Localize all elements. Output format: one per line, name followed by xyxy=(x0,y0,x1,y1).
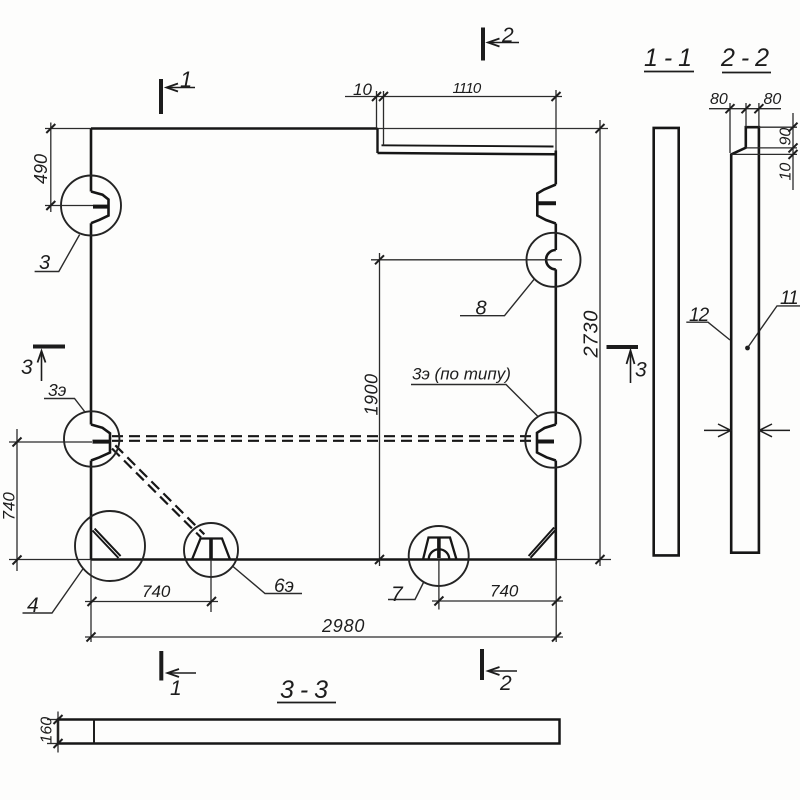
svg-text:2980: 2980 xyxy=(321,616,365,636)
dim 160 line xyxy=(57,712,59,753)
leader 3 xyxy=(35,235,80,272)
notch 8 half circle xyxy=(546,250,556,269)
dim 490 line xyxy=(50,123,52,213)
circle detail 3э (по типу) xyxy=(525,412,580,467)
arch of detail 7 xyxy=(429,549,450,559)
key mark left upper xyxy=(93,205,109,209)
dim 90-10 line xyxy=(792,113,794,190)
svg-text:2 - 2: 2 - 2 xyxy=(720,44,769,72)
leader 4 xyxy=(23,569,84,614)
ticks 490 xyxy=(46,124,55,210)
width arrows at 2-2 xyxy=(704,424,790,437)
key mark left lower xyxy=(93,440,110,444)
ticks 740 left xyxy=(13,438,22,565)
svg-text:1: 1 xyxy=(170,677,182,700)
svg-text:3: 3 xyxy=(21,356,33,379)
chamfer bottom-right corner xyxy=(529,528,556,558)
wire right edge upper xyxy=(554,151,557,185)
svg-text:740: 740 xyxy=(142,582,171,601)
rebate step vertical at x=377.5 xyxy=(376,129,378,154)
ext 160 top xyxy=(47,719,58,721)
LEADER LABELS xyxy=(23,235,800,613)
ext 7 center xyxy=(438,560,440,610)
section mark 1 bottom xyxy=(159,651,163,681)
ticks 10 and 1110 xyxy=(372,92,561,101)
ext of rebate corner xyxy=(376,91,378,129)
leader 7 xyxy=(388,583,424,600)
dim texts xyxy=(0,80,603,636)
svg-text:6э: 6э xyxy=(274,576,294,597)
ticks 2730 xyxy=(596,124,605,564)
svg-text:11: 11 xyxy=(780,288,798,309)
key notch left upper (detail 3) xyxy=(91,192,109,224)
dim 490 ext top xyxy=(45,128,91,130)
wire top edge thin extension to 2730 dim xyxy=(378,128,609,130)
DETAIL CIRCLES xyxy=(61,176,581,587)
svg-text:1900: 1900 xyxy=(362,373,382,415)
ticks 740 bottom-left xyxy=(88,597,217,606)
dashed pair horizontal (hidden edge) xyxy=(112,436,537,441)
section 1-1 bar xyxy=(654,128,679,556)
rebate upper line xyxy=(382,145,554,146)
ticks 740 bottom-right xyxy=(434,597,561,606)
wire right edge above notch 8 xyxy=(554,224,557,251)
svg-text:4: 4 xyxy=(27,594,39,617)
ext 2-2 mid xyxy=(745,103,747,127)
SECTION MARKS xyxy=(33,28,638,681)
dim 1900 line xyxy=(379,253,381,566)
key notch right upper (shear key) xyxy=(537,185,556,224)
svg-text:80: 80 xyxy=(710,91,728,108)
divider of 3-3 bar xyxy=(93,720,95,744)
mark 7 xyxy=(437,539,441,559)
svg-text:1: 1 xyxy=(180,67,192,92)
svg-text:2: 2 xyxy=(499,672,512,695)
leader 11 with dot xyxy=(748,306,800,348)
section 2-2 bar with rebate xyxy=(731,127,759,553)
ticks 90-10 xyxy=(789,123,798,159)
svg-text:490: 490 xyxy=(31,154,51,184)
wire left edge upper xyxy=(90,129,93,192)
wire right edge mid xyxy=(554,269,557,424)
wire left edge mid xyxy=(90,223,93,424)
leader 12 xyxy=(686,322,730,340)
ext of rebate inner xyxy=(383,91,385,146)
trapezoid key 7 on bottom edge xyxy=(423,538,457,560)
key notch right lower (3э по типу) xyxy=(537,425,556,461)
svg-text:8: 8 xyxy=(476,298,487,320)
section mark 2 bottom xyxy=(480,649,484,680)
wire bottom edge xyxy=(91,558,556,561)
circle detail 6э xyxy=(184,523,238,577)
rebate lower line xyxy=(378,153,556,154)
DIMENSIONS xyxy=(9,90,611,642)
trapezoid key 6э on bottom edge xyxy=(192,539,230,560)
ext left edge below xyxy=(90,560,92,643)
ext 160 bottom xyxy=(47,743,58,745)
PANEL PLAN VIEW xyxy=(91,129,608,560)
svg-text:90: 90 xyxy=(778,128,795,146)
svg-text:740: 740 xyxy=(0,492,19,521)
svg-text:740: 740 xyxy=(490,582,519,601)
ext 6э center xyxy=(210,560,212,613)
wire top edge (thick part) xyxy=(91,127,378,130)
circle detail 4 xyxy=(75,511,145,581)
svg-text:3: 3 xyxy=(635,359,647,382)
svg-text:10: 10 xyxy=(778,163,795,181)
svg-text:3э (по типу): 3э (по типу) xyxy=(412,365,511,384)
svg-text:3: 3 xyxy=(39,252,50,274)
section mark 2 top xyxy=(481,28,485,61)
svg-text:1110: 1110 xyxy=(453,80,482,97)
svg-text:7: 7 xyxy=(391,583,404,606)
ext right edge below xyxy=(555,560,557,643)
dim 740 left ext bottom xyxy=(9,559,91,561)
dim 80-80 line xyxy=(709,108,781,110)
ext 2-2 left xyxy=(729,103,731,153)
section mark 1 top xyxy=(159,79,163,114)
key notch left lower (detail 3э) xyxy=(91,425,110,461)
ext 2-2 ledge xyxy=(746,147,797,149)
ticks 80-80 xyxy=(726,104,764,113)
section 3-3 bar xyxy=(58,720,560,744)
svg-text:2: 2 xyxy=(501,24,514,47)
dim 740 bottom-left line xyxy=(85,601,218,603)
dim 490 ext bottom xyxy=(45,205,93,207)
dim 1900 ext top xyxy=(371,259,562,261)
dim 740 bottom-right line xyxy=(432,600,563,602)
dashed pair diagonal (hidden edge) xyxy=(112,445,204,537)
section mark 3 right xyxy=(607,345,639,349)
section mark 3 left xyxy=(33,345,65,349)
leader 6э xyxy=(233,567,302,594)
dot of leader 11 xyxy=(745,346,750,351)
mark 6э xyxy=(209,539,213,560)
svg-text:2730: 2730 xyxy=(581,310,603,359)
ticks 1900 xyxy=(375,255,384,564)
ext 2-2 right xyxy=(758,103,760,127)
svg-text:3э: 3э xyxy=(48,380,67,400)
leader 3э (по типу) xyxy=(411,385,538,417)
svg-text:10: 10 xyxy=(353,80,372,99)
circle detail 3э xyxy=(64,411,119,466)
dim 2730 line xyxy=(599,120,601,566)
dim 2730 ext bottom xyxy=(556,559,611,561)
svg-text:160: 160 xyxy=(39,717,56,744)
svg-text:1 - 1: 1 - 1 xyxy=(644,44,692,72)
ext 2-2 left corner xyxy=(731,153,797,155)
wire right edge lower xyxy=(554,461,557,560)
chamfer detail 4 (double line, bottom-left corner) xyxy=(93,529,121,558)
key mark right upper xyxy=(537,201,556,205)
leader 3э xyxy=(44,399,85,413)
dim 10+1110 line xyxy=(345,96,562,98)
circle detail 7 xyxy=(409,526,469,586)
ext right edge top xyxy=(555,90,557,151)
dim 2980 line xyxy=(85,636,563,638)
dim 740 left line xyxy=(16,429,18,571)
dim 740 left ext top xyxy=(9,441,92,443)
svg-text:3 - 3: 3 - 3 xyxy=(280,676,328,704)
key mark right lower xyxy=(538,440,555,444)
wire left edge lower xyxy=(90,461,93,560)
ticks 160 xyxy=(54,715,63,748)
ticks 2980 xyxy=(87,633,562,642)
circle detail 3 xyxy=(61,176,121,236)
dimension slash ticks xyxy=(13,92,605,642)
ext 2-2 top surface xyxy=(759,126,797,128)
circle detail 8 xyxy=(527,233,581,287)
svg-text:12: 12 xyxy=(689,305,710,326)
svg-text:80: 80 xyxy=(764,91,782,108)
leader 8 xyxy=(460,279,534,316)
